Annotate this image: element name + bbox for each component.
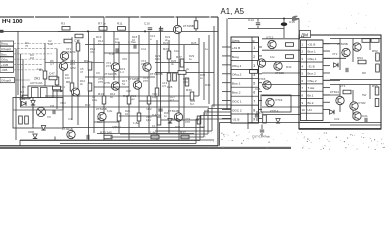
resistor R8: [66, 80, 74, 91]
connector X2 row line 5: [231, 77, 259, 79]
optocoupler U3 cell 1: [32, 88, 39, 98]
label R33 1к: [200, 73, 206, 80]
wire: [247, 113, 249, 129]
svg-text:10м: 10м: [92, 98, 97, 102]
resistor R37: [180, 131, 189, 139]
connector pin X1.4 Общ.: [0, 57, 14, 62]
connector X2 pin 7 left stub: [222, 100, 231, 102]
svg-text:2: 2: [253, 55, 255, 59]
diode VD8: [28, 130, 37, 139]
optocoupler U3 cell 2: [41, 88, 48, 98]
svg-text:С5: С5: [47, 115, 51, 119]
connector X2 pin 9 left stub: [222, 117, 231, 119]
wire: [53, 90, 63, 92]
bus wire 5 drop: [195, 119, 197, 144]
label R21 10: [125, 109, 131, 116]
connector X2 header: [232, 39, 256, 43]
svg-text:ООС 2: ООС 2: [232, 108, 242, 112]
svg-text:КТ8: КТ8: [185, 120, 190, 124]
connector X3 pin 2 Вых.1: [302, 50, 316, 54]
junction: [283, 18, 285, 20]
svg-text:КД5: КД5: [152, 95, 158, 99]
wire segment: [119, 115, 157, 117]
resistor R17: [53, 86, 61, 90]
label R18 10: [132, 35, 138, 42]
wire to board ДМ: [262, 38, 300, 40]
resistor R7: [98, 22, 107, 31]
connector X2 pin 3 Общ.1: [232, 64, 255, 68]
wire X3.8: [323, 94, 340, 96]
svg-text:ДМ: ДМ: [301, 32, 308, 37]
label R34 8,2: [190, 99, 196, 106]
connector X3 row line 3: [301, 54, 324, 56]
connector X3 pin 10 НЧ: [302, 108, 312, 112]
wire: [261, 125, 263, 130]
svg-text:КТ315В: КТ315В: [183, 24, 194, 28]
transistor VT2 КТ3102: [59, 62, 76, 70]
label VD3 КД1: [146, 115, 152, 122]
wire: [32, 95, 34, 128]
junction: [144, 30, 146, 32]
label R11 1к: [60, 85, 65, 92]
wire: [14, 42, 63, 44]
wire to board ДМ: [262, 61, 300, 63]
transistor VT3 КТ3107Б: [104, 63, 120, 76]
svg-text:+31В: +31В: [1, 63, 8, 67]
wire output bus: [248, 122, 330, 124]
connector X2 pin 3 stub: [259, 64, 263, 66]
connector X2 pin 1 stub: [259, 46, 263, 48]
svg-text:С6: С6: [96, 71, 100, 75]
left edge ink mark: [0, 30, 4, 33]
connector X3 row line 9: [301, 98, 324, 100]
wire: [339, 85, 341, 113]
svg-text:R3: R3: [61, 22, 65, 26]
svg-text:R23: R23: [163, 47, 169, 51]
connector X2 row line 3: [231, 60, 259, 62]
wire: [88, 31, 90, 140]
svg-text:5W: 5W: [362, 93, 367, 97]
wire: [17, 31, 19, 95]
wire: [85, 76, 155, 78]
resistor R53: [376, 64, 380, 72]
svg-text:Вых.1: Вых.1: [308, 50, 316, 54]
label R3 75: [25, 41, 29, 48]
wire: [13, 109, 63, 111]
wire: [77, 40, 79, 125]
svg-text:R8: R8: [66, 80, 70, 84]
svg-text:4,7: 4,7: [170, 98, 174, 102]
diode bridge VD6: [36, 107, 45, 116]
svg-text:С8: С8: [50, 104, 54, 108]
svg-text:1мк: 1мк: [48, 42, 53, 46]
svg-text:Общий: Общий: [1, 79, 11, 83]
connector X3 row line 8: [301, 90, 324, 92]
svg-text:R36: R36: [175, 125, 181, 129]
connector X3 pin 3 Общ.1: [302, 57, 317, 61]
svg-text:С15: С15: [74, 39, 80, 43]
wire: [45, 62, 104, 64]
svg-text:1мк: 1мк: [115, 40, 120, 44]
sub-board U1 outline: [13, 98, 63, 129]
wire: [15, 49, 17, 140]
svg-text:7: 7: [253, 100, 255, 104]
svg-text:680: 680: [155, 57, 160, 61]
wire: [352, 90, 354, 118]
rail +supply: [18, 30, 218, 32]
svg-text:510: 510: [200, 125, 205, 129]
svg-text:R14: R14: [98, 92, 104, 96]
svg-text:R7 1к: R7 1к: [98, 22, 107, 26]
bus wire 1: [212, 104, 231, 106]
wire: [160, 26, 162, 120]
svg-text:С11: С11: [141, 47, 146, 51]
junction: [175, 30, 177, 32]
connector X3 pin 3 stub: [323, 57, 330, 59]
wire: [58, 30, 74, 32]
connector X2 pin 2 stub: [259, 55, 263, 57]
svg-text:R33 240: R33 240: [100, 131, 112, 135]
connector X3 row line 4: [301, 61, 324, 63]
connector X2 pin 4 left stub: [222, 73, 231, 75]
transistor VT6 КТ315В: [128, 77, 142, 89]
transistor VT9 КТ814Б: [168, 109, 183, 121]
wire: [155, 72, 214, 74]
svg-text:10: 10: [152, 124, 156, 128]
wire to board ДМ: [262, 49, 300, 51]
label R19 1,2: [120, 67, 126, 74]
connector X2 pin 3 left stub: [222, 64, 231, 66]
connector X2 pin 8 stub: [259, 109, 263, 111]
resistor R21: [194, 21, 198, 29]
transistor VT1 КТ3102: [60, 50, 76, 60]
svg-text:330: 330: [126, 89, 131, 93]
svg-text:-31В: -31В: [1, 68, 7, 72]
board A1 outline top edge: [0, 16, 218, 18]
label С2 1мк: [48, 39, 53, 46]
svg-text:R54: R54: [357, 56, 363, 60]
resistor R41: [286, 55, 294, 59]
svg-text:5: 5: [253, 82, 255, 86]
svg-text:0,5: 0,5: [162, 84, 166, 88]
wire segment: [161, 119, 200, 121]
wire: [339, 39, 341, 71]
resistor R55: [372, 84, 379, 95]
label R30 1к: [164, 111, 170, 118]
resistor R23: [163, 47, 171, 59]
connector X2 pin 2 left stub: [222, 55, 231, 57]
connector X2 pin 7 ООС 1: [232, 100, 255, 104]
resistor R30: [186, 88, 194, 100]
bus wire 5: [196, 118, 231, 120]
svg-text:КТ815Б: КТ815Б: [96, 107, 107, 111]
wire: [62, 51, 64, 110]
connector X2 pin 5 Вых.1: [232, 82, 255, 86]
connector X3 row line 11: [301, 112, 324, 114]
connector X2 pin 1 left stub: [222, 46, 231, 48]
svg-text:82: 82: [110, 95, 114, 99]
capacitor C16: [87, 135, 89, 139]
wire: [93, 38, 95, 133]
connector pin X1.5 +31В: [0, 62, 14, 67]
label С13 0,5: [162, 81, 168, 88]
connector X3 pin 5 Вых.2: [302, 72, 316, 76]
resistor R3: [61, 22, 70, 31]
svg-text:-31 В: -31 В: [232, 117, 239, 121]
svg-text:6,8к: 6,8к: [107, 109, 113, 113]
connector X2 row line 4: [231, 68, 259, 70]
wire: [22, 59, 24, 97]
bus wire 2 drop: [207, 109, 209, 135]
resistor R19: [133, 113, 141, 125]
label R31 240: [183, 77, 189, 84]
connector X3 row line 6: [301, 76, 324, 78]
resistor R10: [88, 83, 92, 91]
connector X3 pin 1 +31 В: [302, 42, 316, 46]
capacitor C20: [346, 68, 348, 72]
svg-text:75: 75: [25, 44, 29, 48]
label С7 10м: [92, 95, 97, 102]
wire: [168, 40, 170, 133]
label R10 2к: [80, 79, 86, 86]
svg-text:С47: С47: [49, 72, 55, 76]
svg-text:НЧ: НЧ: [308, 108, 312, 112]
label R22 2к: [165, 35, 171, 42]
wire: [256, 111, 258, 114]
svg-text:Общ.2: Общ.2: [308, 79, 317, 83]
svg-text:КТ814: КТ814: [270, 109, 279, 113]
svg-text:9: 9: [253, 117, 255, 121]
resistor R42: [250, 70, 258, 74]
wire X3.3: [323, 57, 346, 59]
wire segment: [94, 86, 129, 88]
capacitor C15 electrolytic: [281, 20, 295, 26]
bus wire 1 run: [155, 130, 212, 132]
connector X3 pin 5 stub: [323, 72, 330, 74]
wire: [128, 26, 130, 140]
svg-text:1мк: 1мк: [37, 67, 43, 71]
svg-text:КТ814: КТ814: [330, 90, 339, 94]
svg-text:С14: С14: [248, 18, 254, 22]
wire +31V to board ДМ: [228, 18, 299, 20]
junction: [60, 90, 62, 92]
resistor R54: [357, 56, 366, 64]
resistor R22: [155, 88, 159, 96]
wire: [20, 106, 209, 108]
wire: [183, 45, 185, 127]
wire: [138, 35, 140, 127]
board ДМ outline: [299, 35, 381, 129]
transistor VT20: [350, 101, 366, 110]
transistor VT15: [258, 77, 271, 89]
svg-text:2А1: 2А1: [34, 77, 40, 81]
svg-text:R8: R8: [362, 71, 366, 75]
connector X2 pin 4 stub: [259, 73, 263, 75]
label R29 1к: [189, 54, 195, 61]
connector X2 pin 9 -31 В: [232, 117, 255, 121]
svg-text:Вход: Вход: [1, 42, 8, 46]
wire: [14, 69, 38, 71]
wire: [156, 40, 158, 140]
resistor R15: [49, 72, 57, 80]
wire: [15, 79, 31, 81]
svg-text:R12: R12: [85, 103, 91, 107]
connector X3 pin 6 stub: [323, 79, 330, 81]
svg-text:10к: 10к: [174, 49, 179, 53]
wire: [226, 19, 228, 111]
connector X2 row line 10: [231, 122, 259, 124]
wire: [71, 37, 73, 120]
svg-text:1,6: 1,6: [259, 111, 264, 115]
transistor VT14: [274, 62, 284, 75]
wire: [20, 54, 22, 107]
wire segment: [104, 52, 139, 54]
svg-text:R27: R27: [176, 55, 182, 59]
resistor R9: [84, 59, 92, 70]
connector pin X1.1 Вход: [0, 41, 14, 46]
svg-text:VT16: VT16: [275, 98, 283, 102]
svg-text:VT2: VT2: [70, 66, 76, 70]
wire ДМ bottom bus: [300, 122, 381, 124]
wire: [369, 85, 371, 100]
resistor R50: [362, 39, 370, 43]
svg-text:VT20: VT20: [358, 101, 366, 105]
connector X3 pin 1 stub: [323, 43, 330, 45]
resistor R27: [176, 55, 184, 67]
label R38 15: [204, 109, 210, 116]
label С12 н: [150, 34, 156, 41]
svg-text:екг: екг: [131, 97, 135, 101]
svg-text:А1, А5: А1, А5: [221, 6, 245, 16]
svg-text:2к: 2к: [186, 67, 190, 71]
connector X3 pin 8 Вх.1: [302, 94, 314, 98]
resistor R12: [19, 116, 23, 124]
label R17 51: [122, 79, 128, 86]
wire: [257, 19, 259, 22]
connector X3 row line 2: [301, 46, 324, 48]
resistor R6: [55, 77, 59, 85]
label R20 екг: [131, 94, 137, 101]
bus wire 3: [204, 111, 231, 113]
svg-text:R18: R18: [123, 94, 129, 98]
label R6 4,7: [50, 59, 54, 66]
label VТ2 КТЗ: [70, 59, 76, 66]
bus wire 2: [208, 108, 231, 110]
capacitor C8: [50, 104, 55, 114]
connector X3 pin 9 Вх.2: [302, 101, 314, 105]
connector X3 pin 9 stub: [323, 101, 330, 103]
rail ДМ +: [330, 38, 381, 40]
wire: [155, 62, 199, 64]
wire: [128, 17, 130, 26]
wire to board ДМ: [262, 72, 300, 74]
wire: [103, 17, 105, 26]
connector X2 table outline: [231, 37, 259, 123]
transistor VT7 КТ315В: [173, 24, 194, 34]
wire: [177, 17, 179, 25]
wire: [256, 118, 258, 121]
svg-text:R1: R1: [22, 85, 26, 89]
resistor R40: [286, 43, 294, 47]
svg-text:Общий: Общий: [1, 47, 11, 51]
wire: [44, 43, 46, 96]
resistor R13: [25, 116, 29, 124]
svg-text:КТЗ: КТЗ: [66, 50, 71, 54]
transistor VT16: [266, 98, 283, 107]
resistor R31: [197, 116, 201, 124]
connector X3 pin 6 Общ.2: [302, 79, 317, 83]
optocoupler U3 2А1 outline: [28, 86, 53, 98]
connector X2 row line 1: [231, 42, 259, 44]
connector X2 row line 9: [231, 113, 259, 115]
svg-text:10: 10: [125, 112, 129, 116]
label VТ9 КТ8: [185, 117, 191, 124]
connector pin X1.7 ООС: [0, 78, 15, 83]
label VТ2 КТ3: [106, 61, 112, 68]
svg-text:10к: 10к: [270, 55, 275, 59]
svg-text:VТ4: VТ4: [340, 84, 346, 88]
bus wire 4 drop: [199, 116, 201, 141]
svg-text:КД522: КД522: [112, 125, 121, 129]
board A1 outline right edge: [217, 17, 219, 146]
svg-text:КТ814Б: КТ814Б: [168, 109, 179, 113]
label VТ1 КТЗ: [66, 47, 72, 54]
diode VD7: [41, 126, 45, 131]
transistor VT5 КТ361В: [104, 81, 120, 90]
svg-text:6: 6: [253, 91, 255, 95]
svg-text:1,2: 1,2: [120, 70, 124, 74]
label ДМ: [300, 31, 311, 38]
svg-text:R28: R28: [167, 85, 173, 89]
wire: [213, 26, 215, 107]
bus wire 5 run: [60, 143, 196, 145]
svg-text:VT5: VT5: [104, 81, 110, 85]
connector X3 pin number column: [306, 40, 308, 121]
resistor R26: [157, 117, 161, 125]
svg-text:Т.свз: Т.свз: [308, 86, 315, 90]
connector X2 pin 5 stub: [259, 82, 263, 84]
svg-text:ООС 1: ООС 1: [232, 100, 242, 104]
label VD2 КД5: [152, 92, 158, 99]
svg-text:КТ3: КТ3: [106, 64, 111, 68]
junction: [87, 30, 89, 32]
wire: [97, 133, 194, 135]
resistor R25: [173, 73, 177, 81]
scan bottom bar: [0, 147, 291, 149]
wire rail start: [4, 30, 19, 32]
capacitor C11: [128, 40, 136, 49]
svg-text:КТЗ: КТЗ: [70, 62, 75, 66]
connector X3 row line 10: [301, 105, 324, 107]
transistor VT10: [72, 88, 80, 96]
resistor R14: [98, 92, 106, 104]
svg-text:+31 В: +31 В: [232, 46, 240, 50]
svg-text:R11: R11: [117, 22, 123, 26]
svg-text:VD5: VD5: [19, 97, 25, 101]
transistor VT17 КТ815Б: [337, 42, 350, 57]
svg-text:С4: С4: [68, 117, 72, 121]
wire to board ДМ: [262, 95, 300, 97]
transistor VT19 КТ814Б: [330, 90, 344, 105]
svg-text:10: 10: [302, 108, 306, 112]
wire: [103, 26, 105, 140]
svg-text:КТ361Б: КТ361Б: [62, 127, 73, 131]
resistor R52: [372, 49, 379, 61]
svg-text:+31 В: +31 В: [308, 42, 316, 46]
wire: [63, 127, 204, 129]
wire segment: [45, 95, 63, 97]
svg-text:1М: 1М: [30, 56, 35, 60]
